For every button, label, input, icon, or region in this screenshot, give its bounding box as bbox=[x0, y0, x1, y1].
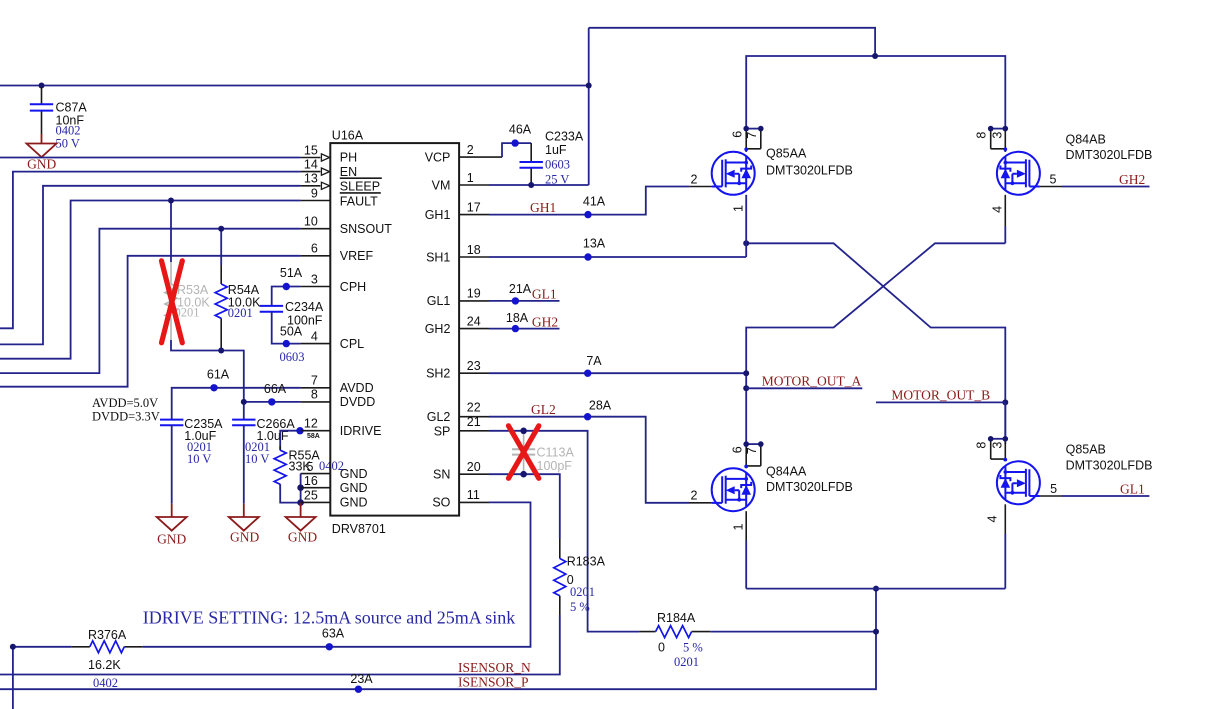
svg-text:61A: 61A bbox=[207, 368, 230, 382]
pin names right bbox=[425, 150, 451, 509]
svg-text:ISENSOR_P: ISENSOR_P bbox=[458, 674, 529, 689]
svg-text:4: 4 bbox=[311, 329, 318, 343]
wire Q84AB drain bbox=[1004, 149, 1006, 152]
wire VM vertical riser bbox=[588, 28, 590, 185]
svg-text:6: 6 bbox=[731, 131, 745, 138]
input arrow pin14 bbox=[321, 168, 329, 175]
junction VM rail / riser bbox=[586, 83, 592, 89]
svg-text:C234A: C234A bbox=[285, 300, 324, 314]
svg-text:IDRIVE SETTING: 12.5mA source: IDRIVE SETTING: 12.5mA source and 25mA s… bbox=[143, 607, 515, 627]
svg-text:ISENSOR_N: ISENSOR_N bbox=[458, 660, 531, 675]
svg-text:1uF: 1uF bbox=[545, 143, 567, 157]
svg-text:Q84AA: Q84AA bbox=[766, 464, 807, 478]
capacitor C113A (removed, ghost) bbox=[512, 431, 574, 474]
svg-text:0603: 0603 bbox=[280, 350, 305, 364]
ground GND under C87A bbox=[27, 134, 57, 171]
svg-text:18A: 18A bbox=[506, 311, 529, 325]
svg-text:1: 1 bbox=[467, 171, 474, 185]
svg-text:10 V: 10 V bbox=[245, 452, 269, 466]
junction C87A top bbox=[39, 83, 45, 89]
svg-text:4: 4 bbox=[990, 206, 1004, 213]
testpoint 50A bbox=[283, 340, 290, 347]
wire MOTOR_OUT_A stub bbox=[746, 387, 862, 389]
input arrow pin15 bbox=[321, 154, 329, 161]
resistor R55A bbox=[274, 446, 344, 489]
pins 6 7 bracket Q84AA bbox=[731, 441, 764, 466]
svg-text:66A: 66A bbox=[264, 382, 287, 396]
wire C235A to gnd bbox=[171, 425, 173, 504]
capacitor C87A bbox=[30, 87, 88, 151]
svg-text:GL1: GL1 bbox=[427, 294, 451, 308]
wire Q85AB source bbox=[1004, 504, 1006, 534]
svg-text:SNSOUT: SNSOUT bbox=[340, 222, 392, 236]
svg-text:GH2: GH2 bbox=[1119, 172, 1145, 187]
wire FAULT net bbox=[0, 201, 301, 359]
svg-text:2: 2 bbox=[691, 489, 698, 503]
wire VCP jog bbox=[502, 143, 531, 157]
red X over R53A bbox=[162, 261, 183, 343]
svg-text:8: 8 bbox=[975, 442, 989, 449]
svg-text:100pF: 100pF bbox=[537, 459, 573, 473]
wire C266A to gnd bbox=[243, 425, 245, 504]
wire Q85AA source to SH1 bbox=[745, 195, 747, 257]
capacitor C266A bbox=[232, 417, 295, 466]
pin numbers right bbox=[467, 143, 481, 502]
testpoint 51A bbox=[283, 283, 290, 290]
ground GND under C266A bbox=[229, 504, 260, 545]
testpoint 23A bbox=[355, 686, 362, 693]
wire EN net bbox=[0, 172, 301, 329]
wire VREF net bbox=[0, 256, 301, 387]
pin stubs right (black) bbox=[459, 157, 502, 502]
svg-text:20: 20 bbox=[467, 460, 481, 474]
svg-text:14: 14 bbox=[304, 157, 318, 171]
svg-text:C233A: C233A bbox=[545, 130, 584, 144]
svg-text:0201: 0201 bbox=[570, 585, 595, 599]
gate stub Q84AA bbox=[689, 502, 712, 504]
svg-text:SLEEP: SLEEP bbox=[340, 180, 380, 194]
transistor Q85AB bbox=[997, 461, 1040, 504]
wire IDRIVE net bbox=[280, 431, 300, 451]
svg-text:50A: 50A bbox=[280, 325, 303, 339]
ground GND under C235A bbox=[157, 504, 187, 547]
testpoint 61A bbox=[210, 384, 217, 391]
junction source rail bbox=[873, 586, 879, 592]
svg-text:28A: 28A bbox=[589, 398, 612, 412]
pins 8 3 bracket Q84AB bbox=[975, 126, 1008, 149]
junction gnd pin16 bbox=[297, 484, 304, 491]
junction R184A node bbox=[873, 629, 879, 635]
wire GL2 net bbox=[489, 417, 689, 503]
svg-text:8: 8 bbox=[311, 388, 318, 402]
wire GH2 right stub bbox=[1062, 186, 1150, 188]
svg-text:10 V: 10 V bbox=[187, 452, 211, 466]
wire SN net bbox=[489, 474, 560, 538]
svg-text:GL1: GL1 bbox=[1120, 482, 1145, 497]
svg-text:AVDD=5.0V: AVDD=5.0V bbox=[92, 396, 158, 410]
svg-text:Q85AB: Q85AB bbox=[1066, 443, 1106, 457]
wire MOTOR_OUT_B stub bbox=[876, 401, 1005, 403]
junction C113A top bbox=[520, 428, 527, 435]
svg-text:5 %: 5 % bbox=[683, 640, 703, 654]
svg-text:GND: GND bbox=[340, 467, 368, 481]
wire GL1 stub bbox=[489, 300, 560, 302]
transistor Q84AA bbox=[712, 468, 755, 511]
testpoint 7A bbox=[584, 370, 591, 377]
ground GND under IC bbox=[286, 503, 318, 545]
svg-text:0201: 0201 bbox=[228, 306, 253, 320]
junction R54A bottom rail bbox=[218, 348, 224, 354]
resistor R376A bbox=[71, 628, 142, 690]
red X over C113A bbox=[509, 426, 539, 479]
wire Q84AA drain bbox=[745, 466, 747, 468]
svg-text:GND: GND bbox=[288, 529, 317, 544]
svg-text:0402: 0402 bbox=[56, 124, 81, 138]
wire R184A to bridge and ISENSOR_P bbox=[0, 589, 876, 690]
svg-text:5: 5 bbox=[307, 460, 314, 474]
gate stub Q84AB bbox=[1040, 186, 1062, 188]
wire SNSOUT net bbox=[0, 229, 301, 373]
svg-text:10: 10 bbox=[304, 215, 318, 229]
resistor R53A (removed, ghost) bbox=[165, 283, 210, 320]
svg-text:SP: SP bbox=[434, 424, 451, 438]
pins 8 3 bracket Q85AB bbox=[975, 436, 1008, 459]
svg-text:6: 6 bbox=[731, 446, 745, 453]
svg-text:R184A: R184A bbox=[657, 611, 696, 625]
svg-text:16.2K: 16.2K bbox=[88, 658, 121, 672]
svg-text:IDRIVE: IDRIVE bbox=[340, 424, 382, 438]
svg-text:22: 22 bbox=[467, 401, 481, 415]
wire R53A branch from FAULT bbox=[170, 201, 172, 263]
svg-text:FAULT: FAULT bbox=[340, 194, 378, 208]
svg-text:Q84AB: Q84AB bbox=[1066, 132, 1106, 146]
pin stubs left (black) bbox=[301, 158, 331, 503]
svg-text:R183A: R183A bbox=[567, 555, 606, 569]
resistor R184A bbox=[639, 611, 710, 669]
gate stub Q85AA bbox=[689, 186, 712, 188]
svg-text:24: 24 bbox=[467, 314, 481, 328]
svg-text:41A: 41A bbox=[583, 194, 606, 208]
svg-text:5: 5 bbox=[1050, 173, 1057, 187]
junction C233A on VM bbox=[528, 182, 534, 188]
capacitor C233A bbox=[520, 130, 584, 187]
svg-text:Q85AA: Q85AA bbox=[766, 147, 807, 161]
wire CPL net bbox=[272, 312, 301, 344]
testpoint 21A bbox=[512, 297, 519, 304]
svg-text:GND: GND bbox=[340, 496, 368, 510]
junction drain rail bbox=[872, 53, 878, 59]
svg-text:C113A: C113A bbox=[537, 445, 575, 459]
wire R54A branch from SNSOUT bbox=[220, 229, 222, 265]
wire GH2 stub bbox=[489, 328, 560, 330]
svg-text:PH: PH bbox=[340, 151, 357, 165]
svg-text:3: 3 bbox=[990, 442, 1004, 449]
svg-text:8: 8 bbox=[975, 132, 989, 139]
svg-text:EN: EN bbox=[340, 165, 357, 179]
wire Q85AA drain bbox=[745, 149, 747, 152]
wire Q85AB drain bbox=[1004, 402, 1006, 438]
wire SP net bbox=[489, 431, 639, 632]
svg-text:MOTOR_OUT_B: MOTOR_OUT_B bbox=[891, 387, 990, 402]
svg-text:51A: 51A bbox=[280, 266, 303, 280]
svg-text:23: 23 bbox=[467, 359, 481, 373]
svg-text:GL2: GL2 bbox=[427, 410, 451, 424]
resistor R183A bbox=[554, 539, 606, 616]
wire GH1 net bbox=[489, 187, 689, 215]
svg-text:21: 21 bbox=[467, 415, 481, 429]
svg-text:DVDD=3.3V: DVDD=3.3V bbox=[92, 409, 160, 423]
svg-text:0201: 0201 bbox=[674, 655, 699, 669]
wire CPH net bbox=[272, 287, 301, 306]
svg-text:DMT3020LFDB: DMT3020LFDB bbox=[766, 163, 853, 177]
pin numbers left bbox=[304, 143, 318, 502]
wire SO net bbox=[143, 502, 531, 646]
svg-text:46A: 46A bbox=[509, 123, 532, 137]
svg-text:2: 2 bbox=[691, 172, 698, 186]
svg-text:63A: 63A bbox=[322, 627, 345, 641]
wire Q84AA source bbox=[745, 511, 747, 540]
svg-text:15: 15 bbox=[304, 143, 318, 157]
testpoint 13A bbox=[584, 253, 591, 260]
svg-text:GH1: GH1 bbox=[425, 208, 451, 222]
transistor Q84AB bbox=[997, 152, 1040, 195]
svg-text:16: 16 bbox=[304, 474, 318, 488]
testpoint 63A bbox=[326, 643, 333, 650]
junction MOTOR_OUT_B node bbox=[1002, 399, 1008, 405]
svg-text:CPH: CPH bbox=[340, 280, 366, 294]
svg-text:GH2: GH2 bbox=[425, 322, 451, 336]
pin names left bbox=[340, 151, 392, 510]
svg-text:DRV8701: DRV8701 bbox=[332, 522, 386, 536]
svg-text:18: 18 bbox=[467, 243, 481, 257]
resistor R54A bbox=[215, 283, 261, 320]
testpoint 46A bbox=[511, 139, 518, 146]
transistor Q85AA bbox=[712, 152, 755, 195]
wire DVDD net bbox=[244, 402, 301, 420]
crossover arm Q84AB source to MOTOR_OUT_A bbox=[746, 243, 1005, 444]
svg-text:GND: GND bbox=[340, 481, 368, 495]
svg-text:7: 7 bbox=[311, 374, 318, 388]
wire VM net bbox=[489, 184, 589, 186]
capacitor C234A bbox=[260, 300, 324, 364]
svg-text:12: 12 bbox=[304, 417, 318, 431]
svg-text:DMT3020LFDB: DMT3020LFDB bbox=[1066, 148, 1153, 162]
svg-text:0: 0 bbox=[658, 640, 665, 654]
capacitor C235A bbox=[160, 417, 223, 466]
testpoint 58A bbox=[296, 427, 303, 434]
svg-text:SO: SO bbox=[432, 496, 450, 510]
wire Q84AB source bbox=[1004, 195, 1006, 226]
svg-text:9: 9 bbox=[311, 186, 318, 200]
junction DVDD corner bbox=[241, 399, 247, 405]
svg-text:VCP: VCP bbox=[425, 150, 451, 164]
svg-text:C87A: C87A bbox=[56, 101, 88, 115]
svg-text:GH1: GH1 bbox=[530, 200, 556, 215]
wire VM rail left bbox=[0, 85, 589, 87]
testpoint 18A bbox=[512, 325, 519, 332]
svg-text:6: 6 bbox=[311, 242, 318, 256]
svg-text:11: 11 bbox=[467, 488, 480, 502]
svg-text:0603: 0603 bbox=[545, 157, 570, 171]
svg-text:13A: 13A bbox=[583, 237, 606, 251]
wire drain rail bbox=[746, 56, 1005, 129]
svg-text:3: 3 bbox=[311, 272, 318, 286]
junction SO left corner bbox=[10, 644, 16, 650]
IC U16A DRV8701 box bbox=[330, 143, 459, 515]
junction MOTOR_OUT_A node bbox=[743, 385, 749, 391]
svg-text:VM: VM bbox=[432, 178, 451, 192]
testpoint 41A bbox=[584, 211, 591, 218]
junction FAULT / R53A branch bbox=[168, 198, 174, 204]
svg-text:25: 25 bbox=[304, 489, 318, 503]
svg-text:MOTOR_OUT_A: MOTOR_OUT_A bbox=[762, 373, 862, 388]
svg-text:5 %: 5 % bbox=[570, 600, 590, 614]
svg-text:13: 13 bbox=[304, 172, 318, 186]
junction gnd pin25 bbox=[297, 499, 304, 506]
wire R55A to gnd pins bbox=[280, 484, 300, 502]
junction SH1 node bbox=[743, 240, 749, 246]
junction SH2 node bbox=[743, 370, 749, 376]
svg-text:DVDD: DVDD bbox=[340, 395, 375, 409]
svg-text:4: 4 bbox=[986, 515, 1000, 522]
svg-text:7: 7 bbox=[745, 132, 759, 139]
junction C113A bottom bbox=[520, 471, 527, 478]
wire SO net left end bbox=[13, 647, 72, 709]
svg-text:50 V: 50 V bbox=[56, 137, 80, 151]
wire GL1 right stub bbox=[1062, 495, 1149, 497]
svg-text:SH2: SH2 bbox=[426, 367, 450, 381]
gate stub Q85AB bbox=[1040, 495, 1062, 497]
svg-text:1: 1 bbox=[731, 523, 745, 530]
junction SNSOUT / R54A bbox=[218, 226, 224, 232]
svg-text:GND: GND bbox=[157, 532, 186, 547]
wire SH1 net bbox=[489, 256, 746, 258]
svg-text:CPL: CPL bbox=[340, 337, 364, 351]
svg-text:VREF: VREF bbox=[340, 249, 374, 263]
testpoint 28A bbox=[584, 413, 591, 420]
svg-text:SN: SN bbox=[433, 468, 450, 482]
wire SH2 net bbox=[489, 372, 746, 374]
wire GND pins vertical bbox=[300, 474, 302, 503]
svg-text:23A: 23A bbox=[350, 672, 373, 686]
input arrow pin13 bbox=[321, 182, 329, 189]
svg-text:2: 2 bbox=[467, 143, 474, 157]
svg-text:21A: 21A bbox=[509, 282, 532, 296]
svg-text:R376A: R376A bbox=[88, 628, 127, 642]
svg-text:U16A: U16A bbox=[332, 129, 364, 143]
svg-text:5: 5 bbox=[1050, 482, 1057, 496]
svg-text:17: 17 bbox=[467, 200, 481, 214]
svg-text:0402: 0402 bbox=[93, 676, 118, 690]
svg-text:DMT3020LFDB: DMT3020LFDB bbox=[766, 480, 853, 494]
svg-text:19: 19 bbox=[467, 287, 481, 301]
wire AVDD net bbox=[172, 388, 301, 420]
svg-text:7: 7 bbox=[745, 447, 759, 454]
svg-text:GH2: GH2 bbox=[532, 314, 558, 329]
wire PH net bbox=[0, 157, 301, 159]
testpoint 66A bbox=[268, 398, 275, 405]
wire VM top link to bridge bbox=[589, 28, 875, 56]
svg-text:GL1: GL1 bbox=[532, 287, 557, 302]
svg-text:GL2: GL2 bbox=[531, 402, 556, 417]
svg-text:3: 3 bbox=[990, 132, 1004, 139]
pins 6 7 bracket Q85AA bbox=[731, 126, 764, 149]
svg-text:AVDD: AVDD bbox=[340, 381, 374, 395]
svg-text:DMT3020LFDB: DMT3020LFDB bbox=[1066, 459, 1153, 473]
svg-text:7A: 7A bbox=[586, 354, 602, 368]
crossover arm SH1 to MOTOR_OUT_B bbox=[746, 243, 1005, 444]
svg-text:1: 1 bbox=[731, 205, 745, 212]
svg-text:GND: GND bbox=[27, 156, 56, 171]
svg-text:GND: GND bbox=[230, 530, 259, 545]
wire source rail bbox=[746, 588, 1005, 590]
wire SN to ISENSOR_N bbox=[0, 615, 560, 675]
svg-text:SH1: SH1 bbox=[426, 250, 450, 264]
wire SLEEP net bbox=[0, 186, 301, 345]
svg-text:58A: 58A bbox=[307, 433, 320, 440]
